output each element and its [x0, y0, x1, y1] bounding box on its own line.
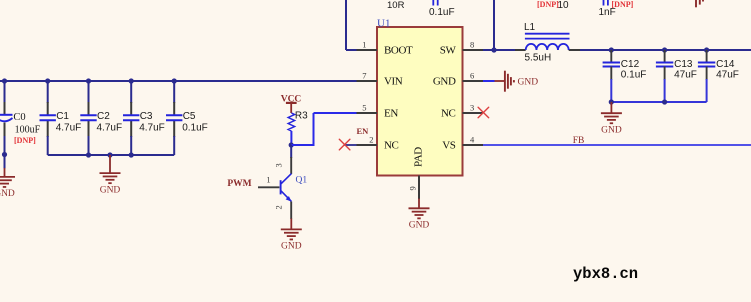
svg-text:1nF: 1nF [599, 7, 616, 18]
svg-text:47uF: 47uF [674, 69, 697, 80]
svg-text:GND: GND [100, 185, 121, 195]
svg-text:2: 2 [369, 134, 373, 144]
svg-text:EN: EN [357, 126, 370, 136]
svg-text:8: 8 [470, 39, 474, 49]
svg-text:0.1uF: 0.1uF [429, 7, 455, 18]
svg-text:C3: C3 [140, 111, 153, 122]
svg-text:10R: 10R [387, 0, 405, 11]
svg-text:FB: FB [573, 136, 585, 146]
svg-text:GND: GND [601, 126, 622, 136]
svg-text:6: 6 [470, 70, 474, 80]
svg-text:NC: NC [384, 139, 399, 151]
svg-text:GND: GND [0, 189, 15, 199]
svg-text:10: 10 [558, 0, 570, 11]
svg-text:[DNP]: [DNP] [14, 136, 36, 145]
svg-text:L1: L1 [524, 22, 536, 33]
svg-text:47uF: 47uF [716, 69, 739, 80]
svg-text:BOOT: BOOT [384, 44, 413, 56]
svg-text:1: 1 [266, 174, 270, 184]
svg-text:[DNP]: [DNP] [537, 0, 559, 9]
svg-text:7: 7 [362, 70, 366, 80]
svg-text:PWM: PWM [227, 179, 251, 189]
svg-text:C5: C5 [183, 111, 196, 122]
svg-text:VS: VS [442, 139, 456, 151]
svg-text:ybx8.cn: ybx8.cn [573, 265, 638, 283]
svg-text:R3: R3 [295, 110, 308, 121]
svg-text:5: 5 [362, 102, 366, 112]
svg-text:GND: GND [409, 221, 430, 231]
svg-text:VIN: VIN [384, 75, 403, 87]
svg-text:9: 9 [408, 186, 418, 190]
svg-text:C1: C1 [56, 111, 69, 122]
svg-text:1: 1 [362, 39, 366, 49]
svg-text:3: 3 [470, 102, 474, 112]
svg-text:Q1: Q1 [296, 175, 308, 185]
svg-text:SW: SW [440, 44, 457, 56]
svg-text:2: 2 [274, 205, 284, 209]
svg-text:U1: U1 [377, 17, 390, 29]
svg-text:4.7uF: 4.7uF [97, 123, 123, 134]
svg-text:PAD: PAD [413, 147, 425, 167]
svg-text:GND: GND [518, 77, 539, 87]
svg-text:NC: NC [441, 107, 456, 119]
svg-text:GND: GND [433, 75, 456, 87]
svg-text:0.1uF: 0.1uF [182, 123, 208, 134]
svg-text:GND: GND [281, 242, 302, 252]
svg-text:C0: C0 [13, 112, 25, 123]
svg-text:4.7uF: 4.7uF [139, 123, 165, 134]
svg-text:4.7uF: 4.7uF [56, 123, 82, 134]
svg-text:3: 3 [274, 163, 284, 167]
svg-text:C2: C2 [97, 111, 110, 122]
svg-text:EN: EN [384, 107, 398, 119]
svg-text:VCC: VCC [281, 94, 302, 104]
svg-text:5.5uH: 5.5uH [525, 53, 552, 64]
svg-text:0.1uF: 0.1uF [621, 69, 647, 80]
svg-text:100uF: 100uF [15, 124, 41, 135]
